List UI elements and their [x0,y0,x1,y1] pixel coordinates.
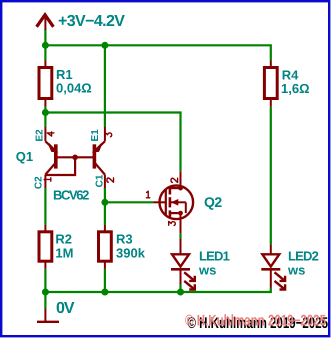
svg-text:0V: 0V [56,300,75,317]
pin number 1 [44,178,51,181]
LED2 [261,245,285,290]
svg-text:LED2: LED2 [288,249,319,264]
wire gate [105,201,154,203]
svg-text:E1: E1 [90,129,101,142]
emitter arrow E2 [49,144,57,152]
svg-text:C1: C1 [94,174,105,187]
substrate arrow [171,199,179,206]
base junction dot [72,155,78,161]
svg-text:BCV62: BCV62 [53,187,89,202]
right base bar [93,144,97,168]
emission arrows [184,272,194,280]
wire E1 [104,45,106,127]
channel dashes [169,187,172,195]
pin number 2 [107,178,114,182]
svg-text:+3V−4.2V: +3V−4.2V [58,13,125,30]
transistor Q1 dual PNP BCV62 [45,127,105,188]
svg-text:390k: 390k [116,246,146,261]
base link [56,156,95,158]
wire bottom rail [45,288,270,293]
C1 diagonal [95,163,105,174]
svg-text:1M: 1M [55,246,73,261]
wire source to LED1 [179,233,181,238]
junction at power/rail [42,42,49,49]
resistor R1 [39,61,92,107]
svg-text:C2: C2 [33,176,44,189]
ground [37,309,59,322]
gate bar [165,190,167,216]
emitter arrow E1 [94,144,102,152]
gate pin [154,201,166,203]
emission arrows [275,272,285,280]
power symbol +3V [37,15,54,30]
svg-text:1,6Ω: 1,6Ω [281,81,310,96]
wire C2 to R2 [44,188,46,225]
junction ground node [42,289,49,296]
base to C2 link [46,157,75,175]
wire R1 bottom to E2 [44,107,46,128]
wire R2 bottom [44,269,46,292]
wire power stem [44,30,46,46]
junction R3 bottom [101,289,108,296]
svg-text:R2: R2 [55,231,72,246]
wire R4 to LED2 [270,107,272,245]
svg-text:R3: R3 [116,231,133,246]
svg-text:ws: ws [287,263,305,278]
source dot [178,211,183,216]
wire top rail [45,45,270,60]
pin number 4 [47,132,54,136]
E2 pin [44,127,46,141]
C2 diagonal [45,163,55,174]
wire mid rail to drain [45,113,180,172]
left base bar [54,144,58,168]
substrate link [171,201,186,203]
wire ground stem [44,292,46,309]
wire R3 bottom [104,269,106,292]
pin number 1 gate [146,191,149,198]
pin number 3 [105,133,112,137]
svg-text:E2: E2 [35,129,46,142]
E1 pin [104,127,106,141]
wire C1 to R3 [104,188,106,225]
LED1 [171,238,195,289]
drain pin [180,171,182,188]
wire LED1 cathode [179,284,181,292]
wire R1 top [44,45,46,60]
svg-text:Q1: Q1 [16,149,33,164]
svg-text:ws: ws [198,263,216,278]
svg-text:Q2: Q2 [204,194,222,210]
resistor R3 [99,225,146,269]
pin number 3 source [169,221,176,225]
junction R1 bottom node [42,109,49,116]
junction LED1 bottom [177,289,184,296]
svg-text:© H.Kuhlmann 2019−2025: © H.Kuhlmann 2019−2025 [185,312,326,329]
junction gate node [101,199,108,206]
resistor R2 [39,225,73,269]
transistor Q2 NMOS [154,171,194,233]
svg-text:LED1: LED1 [199,249,230,264]
svg-text:0,04Ω: 0,04Ω [56,80,92,95]
resistor R4 [264,61,309,107]
junction E1 top [101,42,108,49]
body circle [160,186,194,220]
drain dot [178,186,183,191]
source connection [171,212,181,214]
pin number 2 drain [171,178,178,182]
